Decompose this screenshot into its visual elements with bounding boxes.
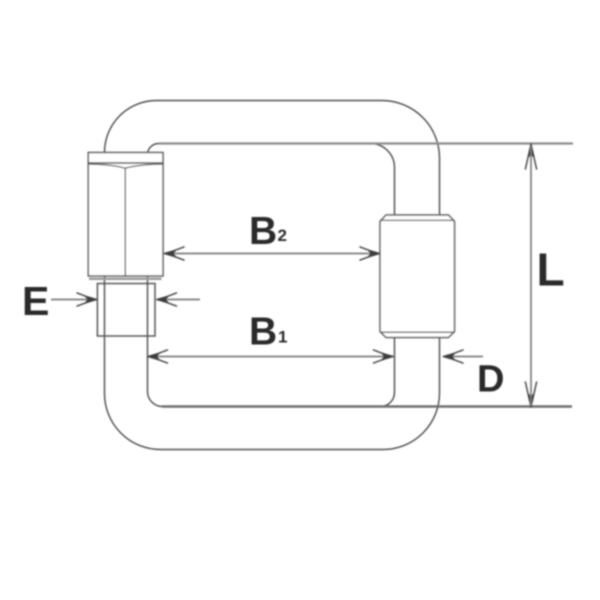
E dimension left arrow	[51, 299, 97, 301]
svg-text:2: 2	[278, 226, 287, 245]
B1 dimension line	[148, 356, 393, 358]
svg-text:E: E	[22, 278, 49, 324]
svg-text:L: L	[537, 244, 565, 296]
L top head	[525, 144, 536, 169]
B1 left head	[148, 350, 168, 363]
svg-text:1: 1	[278, 327, 287, 346]
quick link body outer outline	[105, 101, 440, 450]
B1 right head / D left head	[374, 350, 394, 363]
right sleeve nut	[380, 215, 455, 338]
svg-text:B: B	[249, 310, 277, 353]
B2 dimension line	[165, 253, 380, 255]
quick link body inner outline	[148, 144, 395, 407]
L bottom head	[525, 382, 536, 407]
extension line top (L dimension, overlays inner top line)	[159, 142, 574, 144]
hex nut sleeve	[88, 153, 163, 279]
arrowheads (barbed CAD style)	[77, 144, 537, 407]
L dimension line	[530, 146, 532, 406]
E dimension right arrow	[157, 299, 200, 301]
E left head	[77, 293, 97, 306]
B2 right head	[360, 247, 380, 260]
D dimension right arrow line	[444, 356, 484, 358]
E right head	[157, 293, 177, 306]
D right head	[444, 350, 464, 363]
svg-text:D: D	[477, 359, 504, 401]
extension line bottom (L dimension, overlays inner bottom line)	[162, 405, 572, 407]
B2 left head	[165, 247, 185, 260]
threaded section rect (E)	[97, 284, 155, 337]
svg-text:B: B	[249, 210, 277, 253]
